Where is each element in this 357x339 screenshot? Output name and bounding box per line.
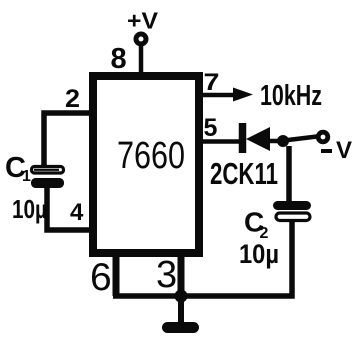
wire pin8 vertical xyxy=(139,45,144,76)
svg-text:8: 8 xyxy=(111,43,127,75)
pin 3 stub xyxy=(178,254,185,296)
capacitor C1 xyxy=(32,167,64,174)
arrow xyxy=(233,88,253,102)
svg-text:10kHz: 10kHz xyxy=(260,80,322,112)
pin 6 stub xyxy=(113,254,120,296)
svg-text:2CK11: 2CK11 xyxy=(210,156,278,191)
svg-text:6: 6 xyxy=(90,256,112,299)
terminal -V xyxy=(318,132,328,142)
diode 2CK11 xyxy=(239,123,247,153)
terminal +V xyxy=(136,34,146,44)
op-amp U1 7660 IC box xyxy=(93,76,199,253)
wire pin7 xyxy=(199,93,237,98)
svg-text:7660: 7660 xyxy=(117,135,185,177)
svg-text:V: V xyxy=(336,137,352,164)
svg-text:5: 5 xyxy=(204,114,218,142)
svg-text:2: 2 xyxy=(65,85,80,113)
wire C1 to pin4 xyxy=(47,188,92,230)
svg-text:3: 3 xyxy=(156,254,177,296)
svg-text:+V: +V xyxy=(127,8,159,34)
wire dot to -V terminal xyxy=(288,137,317,141)
svg-text:4: 4 xyxy=(70,199,84,226)
label -V xyxy=(321,149,332,153)
node junction dot xyxy=(277,135,289,147)
wire dot down to C2 xyxy=(286,146,292,202)
wire C2 down to bottom rail xyxy=(113,221,292,296)
svg-text:10µ: 10µ xyxy=(12,194,47,224)
wire pin2 xyxy=(44,113,92,165)
capacitor C2 xyxy=(273,201,311,210)
svg-text:7: 7 xyxy=(204,69,220,96)
svg-text:10µ: 10µ xyxy=(239,239,279,269)
node junction ground dot xyxy=(175,290,188,303)
svg-text:1: 1 xyxy=(22,168,31,185)
ground xyxy=(178,296,184,323)
wire pin5 xyxy=(199,139,240,144)
